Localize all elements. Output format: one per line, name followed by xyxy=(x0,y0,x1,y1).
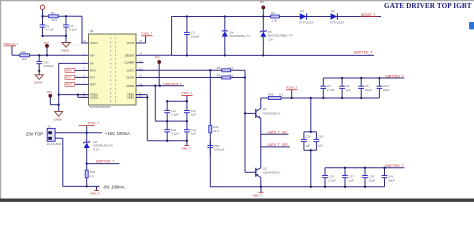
svg-text:J1: J1 xyxy=(47,124,51,128)
svg-text:12V: 12V xyxy=(268,38,273,42)
svg-text:RST: RST xyxy=(90,83,96,87)
svg-text:1µF: 1µF xyxy=(318,143,323,147)
svg-text:TP1: TP1 xyxy=(259,0,265,4)
svg-text:STTH112A: STTH112A xyxy=(299,20,314,24)
svg-text:VCC1: VCC1 xyxy=(90,41,98,45)
svg-text:1µF: 1µF xyxy=(346,88,351,92)
svg-text:VCC2: VCC2 xyxy=(127,41,135,45)
svg-text:1.0k: 1.0k xyxy=(271,19,277,23)
svg-text:22µF: 22µF xyxy=(365,88,372,92)
svg-text:VEE2: VEE2 xyxy=(127,96,135,100)
svg-text:2200pF: 2200pF xyxy=(44,64,54,68)
svg-text:GATE DRIVER TOP IGBT: GATE DRIVER TOP IGBT xyxy=(384,2,472,10)
svg-text:8.1V: 8.1V xyxy=(93,148,99,152)
svg-text:IN-: IN- xyxy=(90,62,94,66)
svg-text:P15V_T: P15V_T xyxy=(181,91,192,95)
svg-text:STTH112A: STTH112A xyxy=(330,20,345,24)
svg-text:N8V_T: N8V_T xyxy=(90,191,100,195)
svg-text:EMITTER_T: EMITTER_T xyxy=(385,164,403,168)
svg-text:TP2: TP2 xyxy=(44,41,50,45)
svg-text:1µF: 1µF xyxy=(349,178,354,182)
svg-text:GND1: GND1 xyxy=(90,96,98,100)
svg-text:12.0: 12.0 xyxy=(227,66,233,70)
svg-text:NJD4411RLG: NJD4411RLG xyxy=(263,171,282,175)
svg-text:IN+: IN+ xyxy=(90,53,95,57)
svg-text:GND2: GND2 xyxy=(126,84,134,88)
svg-text:R1: R1 xyxy=(51,11,55,15)
svg-text:EMITTER_T: EMITTER_T xyxy=(164,82,182,86)
svg-text:DESAT: DESAT xyxy=(125,53,134,57)
svg-text:-8V, 100mA: -8V, 100mA xyxy=(103,185,125,190)
svg-text:FLT: FLT xyxy=(90,76,95,80)
svg-text:R36: R36 xyxy=(268,93,274,97)
svg-text:R2: R2 xyxy=(271,11,275,15)
svg-text:RST: RST xyxy=(66,83,72,87)
svg-text:GATE_T_ON: GATE_T_ON xyxy=(267,130,287,134)
svg-text:22-23-2031: 22-23-2031 xyxy=(47,142,62,146)
svg-text:0.1µF: 0.1µF xyxy=(69,28,77,32)
svg-text:P15V_T: P15V_T xyxy=(88,121,99,125)
svg-text:GATE_T_OFF: GATE_T_OFF xyxy=(267,143,288,147)
svg-text:0.3: 0.3 xyxy=(279,93,284,97)
svg-text:0.015µF: 0.015µF xyxy=(214,148,225,152)
svg-text:12.0: 12.0 xyxy=(227,73,233,77)
svg-text:GNDA: GNDA xyxy=(54,117,62,121)
svg-text:R9: R9 xyxy=(217,73,221,77)
svg-text:0.1µF: 0.1µF xyxy=(329,178,337,182)
svg-text:RDY: RDY xyxy=(66,69,72,73)
svg-text:EMITTER_T: EMITTER_T xyxy=(354,50,372,54)
svg-text:NJD4411RLG: NJD4411RLG xyxy=(263,111,282,115)
svg-text:100: 100 xyxy=(21,57,26,61)
svg-text:33µF: 33µF xyxy=(388,178,395,182)
svg-text:CLAMP: CLAMP xyxy=(125,61,135,65)
svg-text:C24: C24 xyxy=(305,135,311,139)
svg-text:N8V_T: N8V_T xyxy=(182,147,192,151)
svg-text:10.0: 10.0 xyxy=(51,18,57,22)
svg-text:C25: C25 xyxy=(318,135,324,139)
svg-text:OUTL: OUTL xyxy=(127,68,135,72)
svg-text:FLT: FLT xyxy=(66,76,71,80)
svg-text:23V TOP: 23V TOP xyxy=(26,132,43,137)
svg-text:33µF: 33µF xyxy=(369,178,376,182)
svg-text:0.1µF: 0.1µF xyxy=(171,132,179,136)
svg-text:EMITTER_T: EMITTER_T xyxy=(96,160,114,164)
svg-text:GNDA: GNDA xyxy=(34,80,42,84)
svg-text:1µF: 1µF xyxy=(191,113,196,117)
svg-text:+15V, 100mA: +15V, 100mA xyxy=(105,131,130,136)
svg-text:P15V_T: P15V_T xyxy=(141,31,152,35)
svg-text:N8V_T: N8V_T xyxy=(253,193,263,197)
svg-text:TP4: TP4 xyxy=(47,90,53,94)
svg-text:R8: R8 xyxy=(217,66,221,70)
svg-text:TP3: TP3 xyxy=(155,55,161,59)
svg-text:RDY: RDY xyxy=(90,69,96,73)
svg-text:0.1µF: 0.1µF xyxy=(171,113,179,117)
svg-text:4.7µF: 4.7µF xyxy=(327,88,335,92)
svg-text:22µF: 22µF xyxy=(383,88,390,92)
svg-text:220pF: 220pF xyxy=(191,35,200,39)
svg-text:4.7µF: 4.7µF xyxy=(46,28,54,32)
svg-text:1.0: 1.0 xyxy=(90,174,94,178)
svg-text:OUTH: OUTH xyxy=(126,76,134,80)
svg-text:EMITTER_T: EMITTER_T xyxy=(385,75,403,79)
svg-text:1µF: 1µF xyxy=(305,143,310,147)
svg-text:1µF: 1µF xyxy=(191,132,196,136)
svg-text:U1: U1 xyxy=(90,29,94,33)
svg-text:ISO5852SDWR: ISO5852SDWR xyxy=(89,105,111,109)
svg-text:GNDA: GNDA xyxy=(61,48,69,52)
svg-text:R10: R10 xyxy=(21,50,27,54)
svg-text:D1: D1 xyxy=(300,9,304,13)
svg-text:BAT54WSL-7 F: BAT54WSL-7 F xyxy=(230,34,251,38)
svg-text:12.0: 12.0 xyxy=(213,129,219,133)
svg-text:P15V_T: P15V_T xyxy=(286,85,297,89)
svg-text:D2: D2 xyxy=(331,9,335,13)
